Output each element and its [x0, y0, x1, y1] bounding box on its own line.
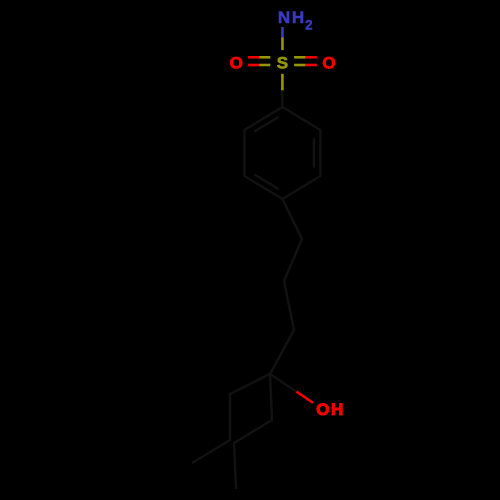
svg-text:H: H: [292, 8, 304, 27]
svg-text:S: S: [277, 54, 288, 73]
S=O right double bond, lower line: olive half: [294, 64, 305, 67]
S=O right double bond, upper line: olive half: [294, 56, 305, 59]
S=O left double bond, lower line: red half: [248, 64, 259, 67]
S=O right double bond, upper line: red half: [305, 56, 316, 59]
svg-text:N: N: [278, 8, 290, 27]
svg-text:O: O: [316, 400, 329, 419]
bond N-S nitrogen half (blue): [281, 27, 284, 37]
svg-text:O: O: [230, 54, 243, 73]
S=O right double bond, lower line: red half: [305, 64, 316, 67]
alkyl branches at carbinol (near-black): [192, 374, 272, 489]
bond ring-to-S (carbon half, near-black): [281, 90, 283, 107]
benzene ring (carbon skeleton, near-black): [244, 107, 320, 199]
S=O left double bond, upper line: olive half: [260, 56, 271, 59]
svg-text:2: 2: [305, 18, 312, 33]
bond N-S sulfur half (olive): [281, 37, 284, 50]
chain ring to carbinol carbon (near-black): [270, 199, 302, 374]
S=O left double bond, lower line: olive half: [260, 64, 271, 67]
svg-text:O: O: [322, 54, 335, 73]
carbinol C-O bond carbon half (near-black): [270, 374, 296, 392]
svg-text:H: H: [331, 400, 343, 419]
bond C-OH oxygen half (red): [296, 392, 313, 403]
bond S-C sulfur half below S (olive): [281, 74, 284, 91]
S=O left double bond, upper line: red half: [248, 56, 259, 59]
